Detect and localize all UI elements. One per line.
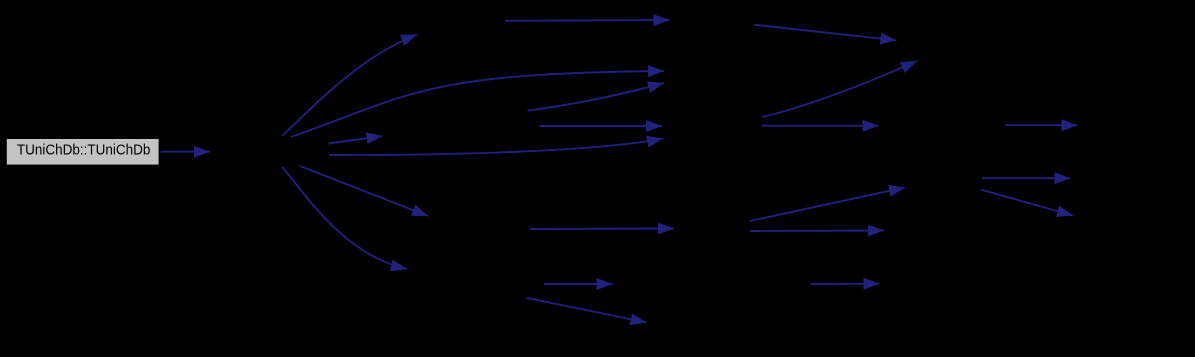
wire E2 hub up-steep: [282, 35, 417, 137]
wire E16 right horizontal: [762, 125, 879, 127]
wire E7 mid horizontal: [540, 125, 663, 127]
wire E18 right horizontal low: [750, 230, 884, 233]
wire E10 hub down-steep curve: [282, 167, 407, 269]
wire E3 hub long up curve: [291, 71, 664, 137]
wire E21 far right diagonal: [981, 190, 1073, 216]
wire E14 right top diagonal: [754, 25, 896, 41]
wire E13 bottom diagonal: [526, 298, 646, 323]
wire E8 top horizontal: [505, 19, 670, 22]
node TUniChDb::TUniChDb: [6, 138, 159, 165]
svg-text:TUniChDb::TUniChDb: TUniChDb::TUniChDb: [17, 142, 151, 159]
wire E5 hub long bottom curve: [330, 139, 664, 156]
wire E19 bottom right short: [811, 283, 880, 285]
wire E17 right diagonal up: [750, 188, 905, 222]
wire E15 right up curve: [762, 61, 917, 117]
wire E4 hub short arrow: [329, 136, 383, 144]
wire E12 bottom short horizontal: [544, 283, 613, 285]
wire E20 far right horizontal: [982, 177, 1071, 179]
wire E11 mid-low horizontal: [530, 228, 674, 231]
wire E6 mid diagonal up: [528, 83, 664, 111]
wire E22 far right top horizontal: [1006, 124, 1078, 126]
wire E1 root to hub: [161, 151, 211, 153]
wire E9 hub down-shallow: [300, 166, 428, 216]
